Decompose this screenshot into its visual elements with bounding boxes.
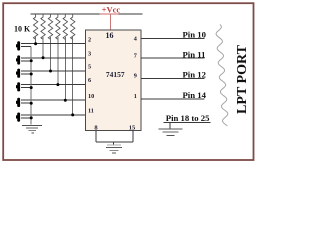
wire row 6 to chip pin 11	[21, 114, 86, 116]
svg-text:11: 11	[88, 108, 94, 115]
switch S6	[16, 113, 31, 122]
wire pin 8 down	[95, 131, 97, 143]
wire pin 15 down	[132, 131, 134, 143]
resistor R2	[41, 14, 45, 40]
switch S3	[16, 69, 31, 78]
svg-text:LPT PORT: LPT PORT	[235, 44, 250, 114]
svg-text:5: 5	[88, 64, 91, 71]
resistor R4	[56, 14, 60, 40]
resistor R5	[63, 14, 67, 40]
wire under Pin 18 to 25	[164, 121, 211, 123]
svg-text:6: 6	[88, 77, 91, 84]
junction dot R1/row1	[34, 42, 37, 45]
resistor R5 drop wire	[64, 37, 66, 100]
switch S5	[16, 98, 31, 107]
junction dot R2/row2	[42, 56, 45, 59]
+Vcc label	[100, 5, 121, 15]
svg-text:9: 9	[134, 73, 137, 80]
svg-text:4: 4	[134, 36, 137, 43]
svg-text:+Vcc: +Vcc	[102, 5, 121, 15]
svg-text:Pin 12: Pin 12	[183, 70, 206, 80]
wire to Pin 12	[141, 78, 205, 80]
switch S4	[16, 82, 31, 91]
wire row 3 to chip pin 5	[21, 70, 86, 72]
svg-text:Pin 18 to 25: Pin 18 to 25	[166, 113, 210, 123]
switch S1	[16, 41, 31, 50]
resistor R4 drop wire	[57, 37, 59, 85]
junction dot R6/row6	[71, 113, 74, 116]
svg-text:10: 10	[88, 93, 94, 100]
resistor R2 drop wire	[42, 37, 44, 58]
ground symbol pin 18-25	[159, 129, 183, 136]
wire row 4 to chip pin 6	[21, 84, 86, 86]
svg-text:2: 2	[88, 36, 91, 43]
junction dot S4 ground	[30, 86, 33, 89]
junction dot S3 ground	[30, 73, 33, 76]
wire row 5 to chip pin 10	[21, 99, 86, 101]
wire row 2 to chip pin 3	[21, 57, 86, 59]
resistor R1 drop wire	[35, 37, 37, 44]
junction dot R4/row4	[56, 83, 59, 86]
svg-text:Pin 10: Pin 10	[183, 29, 207, 39]
chip U1 74157	[86, 30, 141, 131]
junction dot R5/row5	[64, 99, 67, 102]
resistor R6 drop wire	[72, 37, 74, 115]
svg-text:7: 7	[134, 53, 137, 60]
wire down to ground	[169, 122, 171, 128]
svg-text:Pin 11: Pin 11	[183, 49, 206, 59]
svg-text:10 K: 10 K	[14, 25, 31, 34]
wire stub to chip ground	[113, 142, 115, 145]
cable squiggle	[216, 25, 228, 127]
junction dot R3/row3	[49, 70, 52, 73]
junction dot S5 ground	[30, 102, 33, 105]
ground symbol below chip	[106, 145, 122, 153]
switch S2	[16, 55, 31, 64]
svg-text:Pin 14: Pin 14	[183, 90, 207, 100]
resistor R3	[48, 14, 52, 40]
svg-text:74157: 74157	[106, 70, 125, 79]
+Vcc wire to pin 16	[109, 14, 111, 30]
junction dot S2 ground	[30, 59, 33, 62]
wire to Pin 14	[141, 98, 205, 100]
svg-text:16: 16	[106, 31, 114, 40]
resistor R6	[71, 14, 75, 40]
wire row 1 to chip pin 2	[21, 43, 86, 45]
resistor R3 drop wire	[50, 37, 52, 71]
ground symbol left	[22, 126, 42, 134]
svg-text:1: 1	[134, 93, 137, 100]
junction dot S6 ground	[30, 116, 33, 119]
svg-text:3: 3	[88, 50, 91, 57]
+Vcc bus wire	[30, 13, 142, 15]
ground bus wire	[30, 47, 32, 125]
wire to Pin 11	[141, 57, 205, 59]
wire joining pins 8 and 15	[96, 141, 133, 143]
wire to Pin 10	[141, 37, 205, 39]
svg-text:15: 15	[129, 124, 136, 131]
resistor R1	[33, 14, 37, 40]
